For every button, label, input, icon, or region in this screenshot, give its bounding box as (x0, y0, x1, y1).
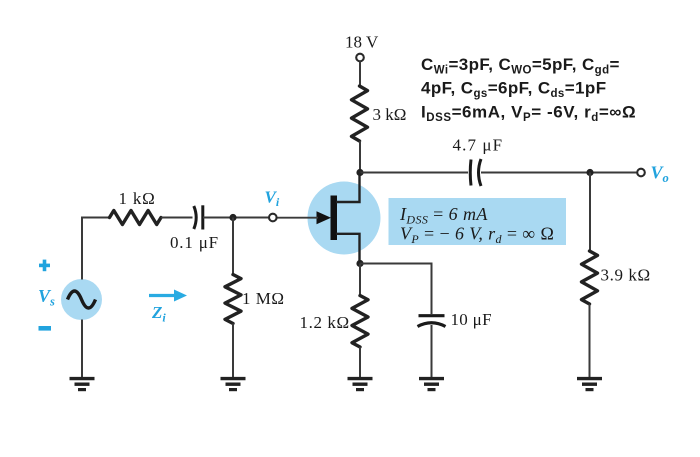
node source junction (356, 260, 363, 267)
transistor Q1 highlight circle (308, 182, 381, 255)
svg-text:Vo: Vo (651, 163, 669, 186)
svg-text:1 MΩ: 1 MΩ (242, 289, 285, 308)
wire C4.7 to Vo (481, 172, 637, 174)
arrow Zi (149, 290, 187, 302)
capacitor C 10uF (419, 314, 445, 317)
ground R1M (221, 379, 246, 390)
resistor 1M zigzag (225, 275, 241, 324)
node Vo terminal (637, 169, 645, 177)
resistor 1k zigzag (110, 211, 162, 225)
capacitor C 4.7uF (469, 160, 473, 186)
wire R3.9k to ground (589, 304, 591, 377)
svg-text:3 kΩ: 3 kΩ (373, 105, 407, 124)
svg-text:VP = − 6 V, rd = ∞ Ω: VP = − 6 V, rd = ∞ Ω (400, 224, 554, 247)
svg-text:4pF, Cgs=6pF, Cds=1pF: 4pF, Cgs=6pF, Cds=1pF (421, 79, 607, 101)
wire gate node to R1M (232, 218, 234, 275)
resistor 3k zigzag (352, 86, 368, 141)
node drain junction (356, 169, 363, 176)
source lead (336, 234, 360, 264)
svg-text:1.2 kΩ: 1.2 kΩ (300, 313, 350, 332)
source VS highlight circle (61, 279, 102, 320)
wire source node to C10uF branch (360, 264, 432, 315)
wire R1.2k to ground (359, 347, 361, 377)
label minus (39, 326, 52, 331)
svg-text:Zi: Zi (151, 303, 166, 325)
svg-text:CWi=3pF, CWO=5pF, Cgd=: CWi=3pF, CWO=5pF, Cgd= (421, 55, 620, 77)
info box (389, 198, 567, 245)
ground VS (70, 379, 95, 390)
capacitor C 0.1uF (194, 206, 196, 229)
ground R1.2k (348, 379, 373, 390)
wire R1k to C 0.1uF (161, 217, 193, 219)
svg-text:10 μF: 10 μF (451, 310, 492, 329)
svg-text:0.1 μF: 0.1 μF (170, 233, 219, 252)
wire R1M to ground (232, 324, 234, 378)
node gate junction (229, 214, 236, 221)
source VS sine symbol (68, 291, 96, 308)
label plus (39, 264, 50, 268)
wire drain node to C 4.7uF (360, 172, 468, 174)
wire source node to R1.2k (359, 264, 361, 296)
resistor 3.9k zigzag (582, 251, 598, 304)
wire VS top rail (82, 218, 110, 280)
wire C10uF to ground (431, 325, 433, 377)
gate wire (277, 217, 318, 219)
drain lead (336, 173, 360, 203)
svg-text:Vs: Vs (38, 286, 55, 309)
wire C0.1 to Vi (203, 217, 269, 219)
wire VS to ground (81, 320, 83, 378)
gate arrow (317, 211, 332, 224)
ground output (577, 379, 602, 390)
svg-text:3.9 kΩ: 3.9 kΩ (601, 266, 651, 285)
resistor 1.2k zigzag (352, 296, 368, 348)
ground C10uF (419, 379, 444, 390)
svg-text:Vi: Vi (265, 188, 280, 210)
node Vi terminal (269, 214, 277, 222)
node output junction (586, 169, 593, 176)
svg-text:18 V: 18 V (345, 33, 379, 52)
svg-text:4.7 μF: 4.7 μF (453, 136, 504, 155)
channel bar (331, 196, 338, 241)
transistor Q1 JFET symbol (277, 173, 360, 264)
svg-text:IDSS=6mA, VP= -6V, rd=∞Ω: IDSS=6mA, VP= -6V, rd=∞Ω (421, 103, 636, 125)
node 18V terminal (356, 54, 364, 62)
svg-text:1 kΩ: 1 kΩ (119, 189, 156, 208)
wire 18V to R 3k (359, 61, 361, 86)
wire R3k to drain node (359, 141, 361, 173)
wire output node to R 3.9k (589, 173, 591, 252)
